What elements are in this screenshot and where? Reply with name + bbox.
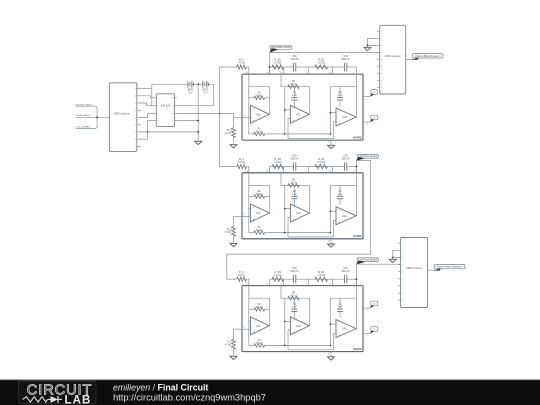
resistor R1 bottom stage1 U2 [249, 232, 254, 234]
resistor R_B1 3 [272, 277, 284, 281]
resistor R_x 2 [233, 216, 235, 226]
resistor R3 stage2 U3 [288, 296, 299, 300]
wire INA left pin stub y113.6 [154, 113, 157, 115]
resistor R_A 1 [237, 65, 247, 69]
wire U2 input rail [220, 166, 237, 168]
wire J3 pin stub 2 [398, 249, 401, 251]
svg-text:47 kΩ: 47 kΩ [225, 345, 231, 347]
op-amp A3 stage3 U1 [336, 108, 356, 126]
capacitor C2b 2 [343, 162, 345, 170]
svg-text:+: + [338, 333, 340, 337]
svg-text:50 kΩ: 50 kΩ [256, 130, 263, 133]
node junction of input leads [96, 116, 98, 118]
wire pin 1 entry U1 [355, 67, 357, 74]
wire pin stub x283.5 U3 [283, 279, 285, 285]
svg-text:8: 8 [172, 98, 173, 100]
wire stage3 output to pin1 line U1 [355, 116, 357, 118]
wire stage2 minus input U2 [285, 208, 291, 210]
wire J1 pin8 to INA pin4 [141, 121, 154, 140]
svg-text:+: + [253, 330, 255, 334]
resistor R2 feedback stage1 U3 [249, 308, 254, 310]
wire pin stub x332.4 U2 [331, 167, 333, 173]
wire J2 pin stub 5 [377, 59, 380, 61]
wire stage2 bus U1 [284, 87, 286, 134]
wire right pin stub V- U1 [363, 121, 370, 123]
ground at J2 [364, 47, 371, 50]
wire INA left pin stub y105.7 [154, 105, 157, 107]
wire R_x to ground U3 [233, 349, 235, 356]
op-amp U2 UAF42 filter block box [242, 173, 363, 239]
wire bottom bus 1 U1 [285, 133, 331, 135]
wire stage1 plus input U2 [242, 215, 251, 217]
node junction HP tap [269, 66, 271, 68]
flag V+ U3 [371, 301, 378, 306]
wire pin stub x283.5 U2 [283, 167, 285, 173]
node junction pin8/gnd crossing [147, 131, 149, 133]
svg-text:1: 1 [135, 88, 136, 90]
wire stage2 minus input U1 [285, 109, 291, 111]
op-amp A3 stage3 U2 [336, 207, 356, 225]
svg-text:9: 9 [402, 300, 403, 302]
wire R_A to pin 13 [246, 167, 249, 173]
node junction J2 ground tie [367, 45, 369, 47]
node junction INA ref/ground bus [197, 120, 199, 122]
wire stage3 bus U2 [329, 185, 331, 232]
wire U1 input rail [220, 66, 237, 68]
wire bottom bus 1 U3 [285, 344, 331, 346]
wire INA left pin stub y97.8 [154, 97, 157, 99]
svg-text:50 kΩ: 50 kΩ [256, 229, 263, 232]
wire J1 pin stub 6 [137, 124, 141, 126]
wire stage2 output U3 [308, 325, 310, 327]
wire stage1 output U1 [268, 113, 270, 115]
svg-text:−: − [338, 109, 340, 113]
wire Left Arm lead [76, 116, 98, 118]
svg-text:1 uF: 1 uF [338, 94, 343, 97]
svg-text:2: 2 [381, 38, 382, 40]
wire ground pin stub U2 [330, 239, 332, 244]
wire battery rail right to INA V+ [177, 84, 214, 105]
node junction LP tap U3 [356, 278, 358, 280]
wire J3 pin stub 3 [398, 256, 401, 258]
wire pin stub x308.3 U3 [307, 279, 309, 285]
svg-text:+: + [293, 330, 295, 334]
wire plus input external U3 [234, 328, 243, 330]
flag High Pass Output [270, 46, 292, 49]
wire INA right pin stub y113.6 [175, 113, 177, 115]
capacitor C1b 1 [292, 63, 294, 71]
op-amp A1 stage1 U1 [251, 105, 270, 123]
flag V+ U1 [371, 90, 378, 95]
wire stage1 rail U1 [249, 86, 270, 88]
resistor R1 bottom stage1 U3 [249, 344, 254, 346]
svg-text:1: 1 [402, 243, 403, 245]
svg-text:1: 1 [381, 31, 382, 33]
svg-text:50 kΩ: 50 kΩ [256, 342, 263, 345]
op-amp U3 UAF42 filter block box [242, 286, 363, 352]
svg-text:50 kΩ: 50 kΩ [290, 294, 297, 297]
wire stage1 minus input U3 [249, 320, 251, 322]
ground at J3 [389, 259, 396, 262]
wire J3 right flag stub [428, 269, 435, 271]
wire pin stub x283.5 U1 [283, 67, 285, 74]
logo resistor zigzag [23, 397, 48, 402]
wire J1 pin7 ground wire [141, 131, 198, 133]
wire stage2 output U1 [308, 113, 310, 115]
svg-text:7: 7 [402, 286, 403, 288]
wire pin stub x269.6 U2 [269, 167, 271, 173]
wire right pin stub V- U3 [363, 333, 370, 335]
svg-text:7: 7 [381, 73, 382, 75]
wire J3 ground stub [392, 258, 394, 260]
resistor R2 feedback stage1 U1 [249, 97, 254, 99]
svg-text:BAT2: BAT2 [203, 89, 209, 92]
resistor R_x 1 [233, 118, 235, 128]
svg-text:6: 6 [402, 279, 403, 281]
svg-text:2: 2 [158, 106, 159, 108]
wire J2 pin stub 3 [377, 45, 380, 47]
wire high-pass rail segment U3 [270, 278, 294, 280]
resistor R3 stage2 U2 [288, 184, 299, 188]
svg-text:1 uF: 1 uF [292, 94, 297, 97]
wire ground pin stub U3 [330, 352, 332, 357]
svg-text:47 kΩ: 47 kΩ [225, 133, 231, 135]
svg-text:−: − [293, 107, 295, 111]
wire pin stub x308.3 U2 [307, 167, 309, 173]
wire R_x to ground U1 [233, 138, 235, 145]
wire J2 pin stub 7 [377, 73, 380, 75]
wire stage1 right line U3 [269, 298, 271, 326]
wire J2 pins 2-3 ground tie [367, 39, 377, 46]
svg-text:LAB: LAB [65, 394, 92, 405]
svg-text:9 V: 9 V [204, 92, 208, 95]
wire pin 1 entry U3 [355, 279, 357, 285]
wire stage2 right line U3 [309, 298, 311, 326]
svg-text:−: − [338, 208, 340, 212]
wire stage3 minus input U2 [330, 210, 336, 212]
wire bottom bus 2 U3 [288, 349, 334, 351]
svg-text:1 uF: 1 uF [338, 193, 343, 196]
svg-text:3: 3 [158, 113, 159, 115]
wire stage1 output U2 [268, 212, 270, 214]
op-amp A2 stage2 U2 [290, 204, 309, 222]
flag Low Pass Output U2 [357, 155, 378, 159]
wire pin1 internal line U2 [355, 173, 357, 216]
svg-text:1: 1 [158, 98, 159, 100]
wire J2 pin stub 1 [377, 31, 380, 33]
wire stage3 plus input U1 [334, 122, 336, 139]
ground below R_x U3 [230, 356, 237, 359]
svg-text:50 kΩ: 50 kΩ [290, 182, 297, 185]
wire INA output [177, 113, 234, 115]
ground below R_x U1 [230, 145, 237, 148]
flag Oshen's Brain Channel 1 [413, 54, 443, 58]
wire stage2 plus input U1 [288, 119, 290, 139]
wire bottom bus 2 U1 [288, 137, 334, 139]
svg-text:50 kΩ: 50 kΩ [256, 94, 263, 97]
node junction INA output branch [219, 113, 221, 115]
wire bottom bus 2 U2 [288, 236, 334, 238]
connector J3 (USB Connector, lower right) [401, 238, 428, 308]
wire stage2 minus input U3 [285, 320, 291, 322]
wire J3 pin stub 8 [398, 292, 401, 294]
wire stage2 plus input U3 [288, 330, 290, 350]
wire R_x to ground U2 [233, 236, 235, 243]
wire R_A to pin 13 [246, 67, 249, 74]
wire pin1 internal line U1 [355, 74, 357, 117]
wire pin stub x269.6 U3 [269, 279, 271, 285]
wire stage3 minus input U3 [330, 323, 336, 325]
wire J1 pin stub 8 [137, 138, 141, 140]
wire stage2 output U2 [308, 212, 310, 214]
svg-text:−: − [253, 205, 255, 209]
wire stage2 rail with pin stub U1 [281, 74, 310, 87]
svg-text:−: − [293, 205, 295, 209]
wire stage2 rail with pin stub U3 [281, 286, 310, 299]
svg-text:9: 9 [381, 87, 382, 89]
capacitor C2b 3 [343, 275, 345, 283]
ground below U3 [328, 357, 335, 360]
connector J1 (USB Connector, left) [109, 83, 136, 152]
ground below U1 [328, 145, 335, 148]
svg-text:1 uF: 1 uF [292, 306, 297, 309]
wire J1 pin5 to INA pin3 [141, 114, 154, 118]
resistor R_B2 2 [315, 164, 328, 168]
wire High Pass Output to connector J2 [270, 51, 380, 53]
wire pin stub x269.6 U1 [269, 67, 271, 74]
svg-text:+: + [253, 119, 255, 123]
wire battery rail feed vertical [151, 84, 153, 105]
wire branch up to stage1 filter input [219, 67, 221, 114]
flag V- U1 [371, 115, 378, 120]
resistor R1 bottom stage1 U1 [249, 133, 254, 135]
wire stage3 plus input U2 [334, 220, 336, 237]
resistor R_B1 2 [272, 164, 284, 168]
wire J2 pin stub 6 [377, 66, 380, 68]
node junction gnd wire/ground bus [197, 131, 199, 133]
svg-text:8: 8 [135, 139, 136, 141]
wire Left Leg lead [76, 117, 98, 128]
footer bar [0, 380, 540, 405]
capacitor C2b 1 [343, 63, 345, 71]
svg-text:BAT1: BAT1 [188, 89, 194, 92]
resistor R3 stage2 U1 [288, 85, 299, 89]
wire stage3 bus U1 [329, 87, 331, 134]
wire stage1 plus input U3 [242, 328, 251, 330]
svg-text:4: 4 [402, 264, 403, 266]
logo CircuitLab box [19, 381, 97, 404]
svg-text:+: + [293, 217, 295, 221]
capacitor C1 stage2 U1 [293, 87, 295, 98]
wire stage3 bus U3 [329, 298, 331, 345]
svg-text:7: 7 [135, 132, 136, 134]
svg-text:2: 2 [402, 250, 403, 252]
wire INA right pin stub y105.7 [175, 105, 177, 107]
wire stage2 plus input U2 [288, 217, 290, 237]
svg-text:5: 5 [135, 117, 136, 119]
wire plus input external U2 [234, 215, 243, 217]
svg-text:9: 9 [135, 146, 136, 148]
battery BAT1 9V [186, 83, 188, 85]
wire branch down to stage2 filter input [219, 114, 221, 167]
op-amp U4 INA 126 instrumentation amplifier [156, 94, 174, 127]
wire J3 pin stub 6 [398, 278, 401, 280]
wire J2 pin stub 9 [377, 87, 380, 89]
svg-text:4: 4 [381, 52, 382, 54]
svg-text:+: + [338, 220, 340, 224]
connector J2 (USB Connector, top right) [380, 25, 406, 94]
wire J2 pin stub 8 [377, 80, 380, 82]
svg-text:3: 3 [135, 103, 136, 105]
svg-text:+: + [253, 217, 255, 221]
wire stage1 rail U3 [249, 297, 270, 299]
wire U2 output routing to U3 input [227, 161, 371, 280]
capacitor C2 stage3 U2 [339, 185, 341, 196]
wire stage3 rail U1 [330, 86, 356, 88]
ground below R_x U2 [230, 243, 237, 246]
capacitor C1b 2 [292, 162, 294, 170]
op-amp U1 UAF42 filter block box [242, 74, 363, 140]
svg-text:9 V: 9 V [189, 92, 193, 95]
svg-text:47 kΩ: 47 kΩ [225, 232, 231, 234]
op-amp A2 stage2 U1 [290, 105, 309, 123]
wire stage3 output to pin1 line U3 [355, 328, 357, 330]
capacitor C1b 3 [292, 275, 294, 283]
wire stage2 right line U2 [309, 185, 311, 213]
wire pin stub x332.4 U3 [331, 279, 333, 285]
svg-text:50 kΩ: 50 kΩ [256, 193, 263, 196]
wire J2 pin stub 2 [377, 38, 380, 40]
wire stage2 bus U3 [284, 298, 286, 345]
svg-text:50 kΩ: 50 kΩ [256, 306, 263, 309]
wire J1 pin stub 5 [137, 117, 141, 119]
wire INA right pin stub y97.8 [175, 97, 177, 99]
svg-text:8: 8 [381, 80, 382, 82]
wire stage1 left line U2 [248, 173, 250, 233]
wire high-pass rail segment U1 [270, 66, 294, 68]
resistor R_B1 1 [272, 65, 284, 69]
op-amp A1 stage1 U3 [251, 317, 270, 335]
svg-text:−: − [293, 318, 295, 322]
resistor R_A 3 [237, 277, 247, 281]
wire J3 pin stub 9 [398, 299, 401, 301]
wire Low Pass Output to connector J3 [356, 263, 400, 265]
wire battery rail left [152, 83, 187, 85]
resistor R_A 2 [237, 164, 247, 168]
svg-text:5: 5 [381, 59, 382, 61]
op-amp A2 stage2 U3 [290, 317, 309, 335]
svg-text:4: 4 [135, 110, 136, 112]
wire stage3 output to pin1 line U2 [355, 215, 357, 217]
svg-text:http://circuitlab.com/cznq9wm3: http://circuitlab.com/cznq9wm3hpqb7 [113, 393, 266, 403]
wire J1 pin stub 3 [137, 102, 141, 104]
svg-text:6: 6 [172, 113, 173, 115]
wire high-pass rail segment U2 [270, 166, 294, 168]
svg-text:−: − [338, 321, 340, 325]
wire ground bus vertical from battery midpoint [197, 84, 199, 141]
wire J1 pin stub 7 [137, 131, 141, 133]
capacitor C1 stage2 U2 [293, 185, 295, 196]
svg-text:Low Pass Output: Low Pass Output [359, 258, 378, 261]
wire J1 pin stub 1 [137, 88, 141, 90]
wire low pass tap vertical U2 [355, 161, 357, 173]
ground battery midpoint [195, 141, 202, 144]
flag V- U3 [371, 327, 378, 332]
wire J1 pin1 to battery rail [141, 88, 152, 90]
wire U3 input rail [227, 278, 237, 280]
resistor R2 feedback stage1 U2 [249, 196, 254, 198]
svg-text:1 uF: 1 uF [292, 193, 297, 196]
flag Low Pass Output U3 [357, 258, 378, 262]
svg-text:3: 3 [381, 45, 382, 47]
wire J3 pin stub 4 [398, 264, 401, 266]
wire R_A to pin 13 [246, 279, 249, 285]
wire stage1 left line U1 [248, 74, 250, 134]
wire low pass tap vertical U3 [355, 264, 357, 285]
capacitor C1 stage2 U3 [293, 298, 295, 309]
wire right pin stub V+ U1 [363, 96, 370, 98]
wire INA right pin stub y120.5 [175, 120, 177, 122]
svg-text:1 uF: 1 uF [338, 306, 343, 309]
svg-text:2: 2 [135, 96, 136, 98]
wire INA reference to ground bus [177, 120, 198, 122]
wire battery midpoint [195, 83, 201, 85]
svg-text:4: 4 [158, 120, 159, 122]
wire J3 pins 2-3 ground tie [393, 250, 398, 257]
svg-text:3: 3 [402, 257, 403, 259]
wire INA output down-jog to U1 plus input [233, 114, 235, 118]
wire J1 pin stub 4 [137, 109, 141, 111]
op-amp A3 stage3 U3 [336, 320, 356, 338]
svg-text:+: + [338, 122, 340, 126]
wire stage2 rail with pin stub U2 [281, 173, 310, 186]
wire stage1 right line U2 [269, 185, 271, 213]
wire pin stub x308.3 U1 [307, 67, 309, 74]
logo diode symbol [48, 398, 51, 400]
wire stage2 right line U1 [309, 87, 311, 115]
capacitor C2 stage3 U1 [339, 87, 341, 98]
wire J2 right flag stub [406, 58, 413, 60]
svg-text:−: − [253, 318, 255, 322]
resistor R_B2 1 [315, 65, 328, 69]
wire ground pin stub U1 [330, 140, 332, 145]
wire J2 ground stub [366, 46, 368, 48]
wire J3 pin stub 1 [398, 242, 401, 244]
wire high pass tap vertical [269, 52, 271, 74]
svg-text:8: 8 [402, 293, 403, 295]
svg-text:+: + [293, 119, 295, 123]
svg-text:5: 5 [402, 272, 403, 274]
wire pin 1 entry U2 [355, 167, 357, 173]
svg-text:50 kΩ: 50 kΩ [290, 83, 297, 86]
op-amp A1 stage1 U2 [251, 204, 270, 222]
wire bottom bus 1 U2 [285, 232, 331, 234]
wire stage2 bus U2 [284, 185, 286, 232]
wire pin1 internal line U3 [355, 286, 357, 329]
wire stage3 rail U2 [330, 184, 356, 186]
wire J3 pin stub 7 [398, 285, 401, 287]
wire J1 pin stub 9 [137, 145, 141, 147]
capacitor C2 stage3 U3 [339, 298, 341, 309]
wire J1 pin stub 2 [137, 95, 141, 97]
wire stage1 output U3 [268, 325, 270, 327]
wire plus input external U1 [234, 117, 243, 119]
svg-text:−: − [253, 107, 255, 111]
flag Oshen's Brain Channel 2 [435, 264, 465, 268]
svg-text:6: 6 [135, 125, 136, 127]
wire stage1 minus input U1 [249, 109, 251, 111]
wire stage1 right line U1 [269, 87, 271, 115]
